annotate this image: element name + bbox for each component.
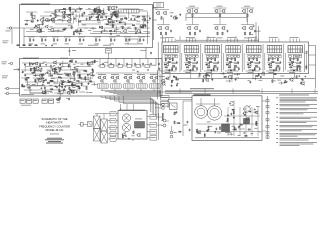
jack J3 — [6, 87, 9, 90]
wire — [24, 20, 34, 22]
value label — [143, 24, 147, 27]
transistor Q31 — [215, 10, 218, 13]
value label — [226, 120, 229, 123]
ground — [170, 14, 172, 17]
label — [156, 103, 159, 106]
ground — [22, 70, 24, 73]
ground — [111, 14, 113, 17]
wire — [92, 14, 98, 16]
resistor R203 — [177, 122, 180, 124]
wire — [103, 114, 105, 120]
resistor R77 — [172, 65, 175, 67]
wire — [267, 96, 269, 139]
transistor Q42 — [250, 27, 253, 30]
resistor R178 — [175, 76, 177, 80]
resistor R190 — [196, 132, 199, 134]
wire — [160, 97, 192, 99]
wire — [69, 12, 71, 18]
wire — [20, 27, 45, 29]
wire — [45, 89, 66, 91]
wire — [65, 85, 80, 87]
wire — [264, 53, 266, 70]
capacitor C17 — [110, 32, 112, 33]
value label — [34, 74, 37, 77]
transistor Q88 — [230, 101, 234, 105]
notes heading — [279, 94, 309, 97]
wire — [216, 39, 218, 43]
display assembly outline — [118, 111, 147, 140]
wire — [202, 53, 204, 70]
wire — [239, 128, 245, 130]
capacitor C149 — [175, 111, 177, 112]
ground — [32, 63, 34, 66]
wire — [164, 61, 176, 63]
transistor Q25 — [96, 9, 99, 12]
wire — [61, 90, 66, 92]
wire — [257, 39, 259, 43]
resistor R154 — [86, 86, 88, 90]
wire — [57, 93, 64, 95]
ground — [58, 9, 60, 12]
connector pad — [193, 55, 195, 57]
wire — [254, 77, 256, 80]
wire — [211, 74, 213, 79]
capacitor C142 — [207, 126, 209, 127]
wire — [70, 89, 80, 91]
note line — [280, 143, 314, 146]
note line — [280, 99, 318, 102]
note line — [280, 96, 318, 99]
value label — [73, 82, 76, 85]
transistor Q78 — [57, 98, 60, 101]
value label — [250, 33, 253, 36]
connector block P8 — [161, 96, 170, 101]
resistor R52 — [65, 38, 67, 42]
resistor R50 — [41, 38, 43, 42]
wire — [21, 77, 30, 79]
resistor R29 — [101, 26, 103, 30]
capacitor C68 — [226, 63, 228, 64]
resistor R180 — [202, 79, 204, 83]
ground — [60, 76, 62, 79]
connector pad — [248, 55, 250, 57]
transistor Q32 — [222, 10, 225, 13]
value label — [97, 21, 101, 24]
transistor Q40 — [222, 27, 225, 30]
wire — [247, 8, 249, 14]
value label — [63, 16, 66, 19]
indicator tube V3 — [101, 119, 108, 131]
wire — [93, 83, 95, 86]
wire — [248, 39, 250, 43]
bus wire — [121, 95, 161, 97]
capacitor C119 — [126, 63, 128, 64]
value label — [51, 12, 55, 15]
wire — [167, 100, 169, 109]
transistor Q95 — [122, 133, 125, 136]
label — [21, 104, 31, 107]
transistor Q34 — [250, 10, 253, 13]
value label — [71, 81, 74, 84]
resistor R64 — [192, 14, 194, 18]
value label — [184, 124, 188, 127]
value label — [210, 73, 213, 76]
wire — [123, 9, 143, 11]
value label — [60, 79, 64, 82]
transistor Q89 — [244, 106, 250, 112]
wire — [60, 92, 62, 95]
value label — [206, 71, 212, 74]
value label — [31, 18, 34, 21]
value label — [192, 62, 197, 65]
wire — [111, 20, 113, 28]
note line — [280, 121, 307, 124]
resistor R122 — [69, 60, 72, 62]
transistor Q46 — [228, 63, 231, 66]
wire — [61, 81, 67, 83]
value label — [82, 24, 86, 27]
wire — [55, 9, 81, 11]
wire — [78, 81, 95, 83]
connector block 7 — [150, 130, 157, 135]
wire — [207, 36, 209, 40]
power switch SW1 — [170, 103, 178, 110]
capacitor C11 — [68, 7, 70, 8]
capacitor C131 — [211, 78, 213, 79]
transistor Q81 — [162, 82, 165, 85]
resistor R119 — [65, 74, 68, 76]
value label — [254, 127, 257, 130]
resistor R57 — [139, 38, 141, 42]
value label — [217, 132, 221, 135]
resistor R20 — [100, 16, 103, 18]
wire — [262, 44, 264, 72]
power supply board outline — [192, 96, 262, 141]
value label — [290, 69, 297, 72]
value label — [217, 5, 223, 8]
transistor Q59 — [67, 92, 70, 95]
wire — [109, 11, 120, 13]
wire — [143, 31, 148, 33]
wire — [102, 29, 107, 31]
resistor R33 — [122, 26, 124, 30]
transistor Q74 — [140, 80, 142, 82]
capacitor C84 — [293, 69, 295, 70]
capacitor C47 — [199, 30, 201, 31]
resistor R199 — [255, 121, 257, 125]
bus wire — [24, 36, 150, 38]
capacitor C3 — [37, 19, 39, 20]
filter capacitor C152 — [266, 112, 269, 114]
resistor R120 — [72, 73, 75, 75]
resistor R72 — [222, 32, 224, 36]
capacitor C89 — [75, 60, 77, 61]
ground — [254, 108, 256, 111]
ground — [34, 69, 36, 72]
value label — [29, 89, 32, 92]
resistor R89 — [213, 65, 216, 67]
wire — [255, 22, 257, 42]
resistor R106 — [277, 58, 279, 62]
value label — [132, 69, 135, 72]
wire — [108, 138, 110, 140]
wire — [299, 39, 301, 43]
wire — [42, 20, 72, 22]
capacitor C110 — [56, 86, 58, 87]
wire — [247, 54, 261, 56]
capacitor C106 — [23, 85, 25, 86]
resistor R123 — [29, 62, 31, 66]
wire — [36, 66, 55, 68]
wire — [287, 70, 301, 72]
resistor R160 — [79, 77, 82, 79]
bus wire — [105, 90, 161, 92]
wire — [49, 73, 70, 75]
resistor R167 — [50, 80, 53, 82]
resistor R131 — [87, 62, 89, 66]
wire — [128, 12, 130, 19]
resistor R97 — [234, 67, 236, 71]
transistor Q57 — [35, 62, 38, 65]
resistor R55 — [110, 38, 112, 42]
wire — [243, 53, 245, 70]
wire — [267, 54, 281, 56]
ground — [177, 82, 179, 85]
resistor R36 — [137, 16, 140, 18]
wire — [77, 66, 91, 68]
capacitor C88 — [33, 67, 35, 68]
ground — [40, 67, 42, 70]
ground — [67, 79, 69, 82]
input arrow — [14, 69, 20, 71]
resistor R21 — [68, 14, 71, 16]
wire — [48, 81, 71, 83]
ground — [147, 21, 149, 24]
filter capacitor C154 — [266, 126, 269, 128]
value label — [88, 13, 92, 16]
connector block 6 — [150, 123, 157, 128]
wire — [93, 31, 121, 33]
connector block 8 — [150, 136, 157, 141]
capacitor C124 — [158, 67, 160, 68]
transistor Q69 — [124, 76, 127, 79]
label — [3, 40, 9, 43]
wire — [147, 116, 150, 118]
resistor R117 — [305, 65, 307, 69]
capacitor C29 — [125, 17, 127, 18]
wire — [78, 33, 82, 35]
value label — [124, 73, 132, 76]
wire — [98, 15, 110, 17]
resistor R208 — [122, 135, 124, 139]
wire — [72, 16, 74, 24]
connector pad — [175, 55, 177, 57]
resistor R192 — [255, 122, 257, 126]
crystal oscillator module Y1 — [119, 9, 140, 13]
diode D3 — [118, 65, 123, 68]
resistor R187 — [273, 73, 276, 75]
capacitor C143 — [214, 131, 216, 132]
diode D6 — [145, 65, 150, 68]
resistor R4 — [30, 13, 32, 17]
main circuit board outline — [20, 59, 163, 97]
value label — [86, 91, 89, 94]
resistor R125 — [83, 70, 86, 72]
resistor R38 — [124, 17, 127, 19]
label — [2, 61, 8, 64]
wire — [195, 39, 197, 43]
resistor R130 — [77, 75, 80, 77]
wire — [230, 39, 232, 43]
ground — [231, 77, 233, 80]
value label — [273, 80, 276, 83]
resistor R110 — [269, 66, 272, 68]
value label — [268, 57, 276, 60]
transistor Q4 — [51, 28, 54, 31]
resistor R169 — [50, 75, 53, 77]
wire — [73, 31, 84, 33]
transistor Q24 — [113, 11, 116, 14]
capacitor C45 — [179, 13, 181, 14]
wire — [292, 39, 294, 43]
readout decoder IC U3 — [205, 46, 220, 53]
resistor R53 — [79, 38, 81, 42]
resistor R116 — [289, 66, 292, 68]
resistor R58 — [17, 44, 20, 46]
resistor R92 — [207, 66, 210, 68]
resistor R82 — [194, 58, 196, 62]
wire — [237, 73, 239, 76]
resistor R73 — [244, 32, 246, 36]
bus wire — [165, 91, 318, 93]
capacitor C116 — [102, 63, 104, 64]
filter capacitor C156 — [266, 136, 269, 138]
value label — [90, 13, 94, 16]
wire — [155, 59, 157, 67]
connector pad — [289, 55, 291, 57]
wire — [179, 36, 181, 40]
wire — [266, 70, 280, 72]
wire — [225, 132, 231, 134]
wire — [247, 61, 259, 63]
connector pad — [210, 55, 212, 57]
resistor R25 — [63, 28, 66, 30]
wire — [35, 74, 37, 77]
value label — [172, 62, 177, 65]
wire — [147, 59, 149, 67]
value label — [62, 13, 65, 16]
value label — [43, 61, 46, 64]
value label — [227, 71, 233, 74]
value label — [232, 125, 235, 128]
capacitor C19 — [99, 26, 101, 27]
value label — [122, 21, 126, 24]
wire — [227, 39, 229, 43]
resistor R140 — [71, 81, 73, 85]
wire — [93, 60, 95, 63]
wire — [107, 59, 109, 67]
value label — [48, 75, 51, 78]
value label — [259, 130, 262, 133]
wire — [55, 66, 62, 68]
wire — [128, 31, 137, 33]
capacitor C28 — [134, 18, 136, 19]
resistor R163 — [26, 77, 29, 79]
resistor R159 — [71, 84, 74, 86]
label — [162, 113, 164, 121]
resistor R68 — [165, 32, 167, 36]
value label — [61, 83, 64, 86]
wire — [183, 100, 192, 102]
transistor Q26 — [157, 12, 160, 15]
resistor R93 — [226, 58, 228, 62]
capacitor C71 — [259, 68, 261, 69]
capacitor C97 — [40, 70, 42, 71]
wire — [75, 15, 95, 17]
resistor R90 — [209, 61, 212, 63]
transistor Q52 — [39, 74, 42, 77]
capacitor C67 — [237, 61, 239, 62]
wire — [62, 15, 64, 23]
capacitor C72 — [259, 61, 261, 62]
wire — [79, 91, 85, 93]
wire — [103, 27, 128, 29]
capacitor C73 — [247, 63, 249, 64]
resistor R30 — [80, 29, 82, 33]
value label — [35, 69, 38, 72]
value label — [56, 72, 58, 75]
resistor R136 — [73, 71, 76, 73]
resistor R181 — [199, 73, 201, 77]
wire — [54, 27, 74, 29]
capacitor C100 — [41, 74, 43, 75]
connector pad — [255, 55, 257, 57]
transistor Q54 — [36, 67, 39, 70]
capacitor C140 — [215, 128, 217, 129]
wire — [64, 36, 71, 38]
note line — [280, 128, 318, 131]
value label — [176, 122, 179, 125]
wire — [77, 19, 79, 26]
wire — [278, 39, 280, 43]
resistor R195 — [219, 126, 221, 130]
transistor Q63 — [98, 76, 101, 79]
value label — [248, 71, 254, 74]
wire — [165, 39, 167, 43]
wire — [62, 89, 64, 92]
transistor Q36 — [166, 27, 169, 30]
wire — [38, 28, 40, 34]
ground — [74, 66, 76, 69]
transistor Q65 — [101, 80, 103, 82]
value label — [66, 14, 69, 17]
resistor R105 — [268, 58, 270, 62]
resistor R118 — [39, 63, 41, 67]
wire — [251, 107, 253, 136]
wire — [102, 8, 104, 13]
wire — [159, 74, 161, 96]
value label — [71, 12, 74, 15]
value label — [249, 69, 256, 72]
connector pad — [207, 55, 209, 57]
wire — [315, 46, 317, 89]
wire — [25, 66, 33, 68]
resistor R31 — [99, 9, 101, 13]
wire — [79, 14, 81, 19]
wire — [61, 69, 86, 71]
wire — [294, 74, 296, 79]
capacitor C94 — [56, 71, 58, 72]
